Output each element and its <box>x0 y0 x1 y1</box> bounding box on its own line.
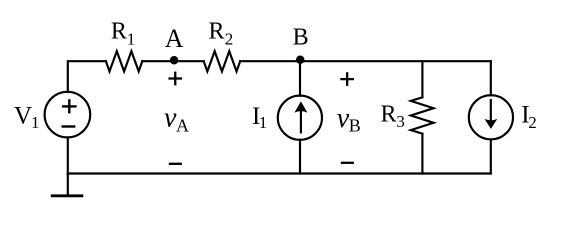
wire R1 to R2 through node A <box>142 60 203 62</box>
label I1 <box>252 103 267 132</box>
label R1 <box>111 18 135 48</box>
vA minus sign <box>169 163 182 165</box>
wire I2 bottom <box>490 139 492 173</box>
svg-text:1: 1 <box>31 113 40 132</box>
svg-text:B: B <box>293 25 309 51</box>
vB plus sign <box>340 72 354 86</box>
svg-text:3: 3 <box>396 112 405 131</box>
V1 minus sign <box>62 125 76 127</box>
vB minus sign <box>341 162 354 164</box>
ground bar <box>51 194 84 197</box>
svg-text:B: B <box>349 116 361 136</box>
svg-text:2: 2 <box>225 30 234 49</box>
wire R3 bottom <box>421 134 423 174</box>
wire bottom rail <box>68 172 491 174</box>
wire node B down to I1 <box>299 61 301 95</box>
wire R3 top <box>421 61 423 97</box>
V1 plus sign <box>62 99 77 113</box>
label vA <box>164 103 189 136</box>
node A <box>170 56 179 64</box>
wire ground stem <box>67 174 69 196</box>
I2 arrow head <box>485 119 498 129</box>
voltage source V1 circle <box>45 92 91 138</box>
resistor R3 <box>411 97 434 133</box>
svg-text:V: V <box>14 103 32 130</box>
resistor R1 <box>106 51 142 71</box>
wire V1 bottom <box>67 137 69 173</box>
label R2 <box>209 18 234 48</box>
I2 arrow shaft <box>490 100 492 125</box>
label R3 <box>381 102 405 132</box>
svg-text:R: R <box>209 18 225 44</box>
resistor R2 <box>204 51 241 71</box>
node B <box>296 55 305 64</box>
label V1 <box>14 103 40 133</box>
svg-text:1: 1 <box>259 113 268 132</box>
label I2 <box>521 101 537 132</box>
svg-text:A: A <box>165 24 184 53</box>
I1 arrow shaft <box>300 105 302 133</box>
svg-text:1: 1 <box>127 30 136 49</box>
vA plus sign <box>168 72 182 86</box>
svg-text:R: R <box>111 18 127 44</box>
wire R2 to top-right corner through node B <box>240 60 491 62</box>
wire I2 top <box>490 61 492 95</box>
wire V1 top to R1 <box>68 61 106 92</box>
current source I2 circle <box>469 95 513 139</box>
I1 arrow head <box>294 101 307 112</box>
current source I1 circle <box>278 96 322 140</box>
label vB <box>337 103 361 136</box>
svg-text:A: A <box>176 115 189 135</box>
svg-text:R: R <box>381 102 397 128</box>
wire I1 bottom <box>299 140 301 174</box>
svg-text:2: 2 <box>528 113 537 132</box>
